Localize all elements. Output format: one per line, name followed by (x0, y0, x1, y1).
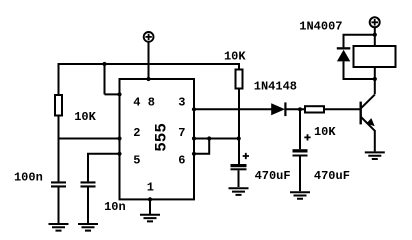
wire pin2 trigger (58, 138, 120, 140)
svg-text:2: 2 (133, 126, 140, 140)
ground GND4 under C3 (229, 188, 249, 195)
svg-text:1N4007: 1N4007 (299, 19, 342, 33)
wire pin6 loop to pin7 (194, 138, 209, 155)
svg-text:470uF: 470uF (314, 169, 350, 183)
relay K1 coil box (354, 46, 396, 67)
svg-text:10K: 10K (224, 50, 246, 64)
resistor R3 10K body (305, 106, 324, 112)
wire C3 bottom lead (238, 170, 240, 187)
wire VCC2 to relay (374, 28, 376, 46)
svg-text:10K: 10K (314, 125, 336, 139)
ground GND6 under Q1 emitter (365, 152, 385, 159)
wire pin3 output (194, 108, 272, 110)
wire pin7 discharge (194, 138, 238, 140)
svg-text:1: 1 (147, 181, 154, 195)
wire D2 anode down (343, 61, 345, 80)
ground GND1 under C1 (49, 224, 69, 231)
wire pin5 to C2 (88, 153, 120, 182)
svg-text:10K: 10K (74, 110, 96, 124)
junction node pin4 (117, 92, 121, 96)
wire C4 bottom lead (299, 156, 301, 191)
junction node pin1 (148, 197, 152, 201)
junction node R2-C3-pin7 (237, 136, 241, 140)
power symbol VCC1 (144, 32, 154, 42)
diode D1 1N4148 (271, 102, 286, 116)
svg-text:100n: 100n (14, 170, 43, 184)
wire R1 top lead (58, 63, 60, 95)
wire D2 anode to collector node (343, 78, 375, 80)
resistor R1 10K body (55, 95, 62, 116)
capacitor C1 100n plates (51, 181, 66, 187)
junction node D2 anode branch (373, 77, 377, 81)
wire emitter to ground (374, 130, 376, 151)
capacitor C4 470uF plates (293, 149, 308, 156)
IC U1 555 box (120, 79, 195, 199)
junction node pin7 (192, 136, 196, 140)
wire emitter diagonal (361, 117, 375, 131)
wire R2 bottom lead to C3 (238, 89, 240, 165)
wire R3 to base (324, 108, 360, 110)
svg-text:555: 555 (152, 123, 170, 152)
junction node D2 cathode branch (373, 33, 377, 37)
transistor Q1 base bar (360, 102, 362, 125)
wire top VCC rail (59, 63, 240, 65)
resistor R2 10K body (236, 70, 243, 89)
transistor Q1 emitter arrow (366, 118, 374, 126)
wire relay to collector (374, 67, 376, 94)
wire R2 top lead (238, 63, 240, 70)
capacitor C2 10n plates (81, 181, 96, 187)
wire C2 bottom lead (87, 187, 89, 223)
junction node pin3 (192, 107, 196, 111)
junction node top rail pin4 (102, 62, 106, 66)
power symbol VCC2 (370, 17, 380, 27)
wire branch to D2 cathode (343, 34, 375, 48)
wire pin1 to ground (149, 199, 151, 214)
wire VCC to pin8 (148, 42, 150, 79)
svg-text:8: 8 (148, 95, 155, 109)
svg-text:4: 4 (133, 95, 140, 109)
junction node C4 tap (298, 107, 302, 111)
capacitor C3 470uF plates (231, 164, 247, 170)
svg-text:6: 6 (178, 154, 185, 168)
diode D2 1N4007 (337, 47, 351, 61)
ground GND3 under pin1 (140, 215, 160, 222)
wire C1 bottom lead (58, 187, 60, 223)
svg-text:470uF: 470uF (255, 169, 291, 183)
wire collector diagonal (361, 95, 375, 109)
junction node pin6 (192, 152, 196, 156)
svg-text:1N4148: 1N4148 (254, 80, 297, 94)
wire pin4 branch (105, 63, 120, 94)
junction node pin5 (117, 152, 121, 156)
svg-text:10n: 10n (104, 200, 126, 214)
svg-text:3: 3 (178, 95, 185, 109)
svg-text:5: 5 (133, 154, 140, 168)
wire C4 top lead (299, 109, 301, 149)
svg-text:7: 7 (178, 126, 185, 140)
ground GND5 under C4 (290, 192, 310, 199)
ground GND2 under C2 (78, 224, 98, 231)
capacitor C3 plus sign (243, 153, 249, 159)
capacitor C4 plus sign (304, 134, 310, 140)
wire R1 bottom lead to C1 (58, 116, 60, 182)
wire diode D1 to R3 (285, 108, 305, 110)
junction node pin8 (146, 77, 150, 81)
junction node pin6-pin7 loop (207, 136, 211, 140)
junction node pin2 (117, 136, 121, 140)
